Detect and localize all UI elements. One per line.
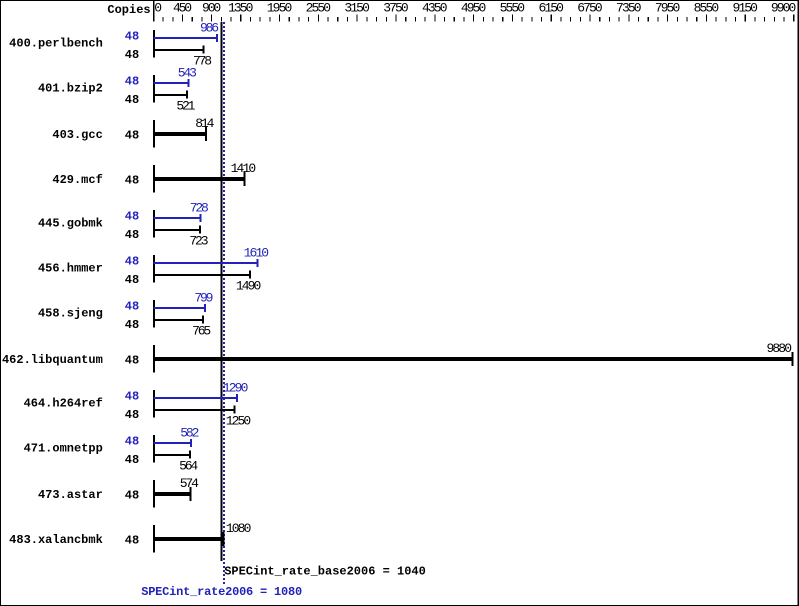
svg-text:723: 723: [189, 234, 208, 249]
svg-text:48: 48: [125, 453, 139, 467]
axis serif 473.astar: [153, 480, 155, 507]
svg-text:521: 521: [176, 99, 195, 114]
svg-text:48: 48: [125, 30, 139, 44]
svg-text:574: 574: [180, 476, 199, 491]
base bar 471.omnetpp = 564: [154, 454, 190, 456]
svg-text:9880: 9880: [767, 341, 792, 356]
svg-text:6150: 6150: [538, 1, 563, 16]
base bar 464.h264ref = 1250: [154, 409, 235, 411]
svg-text:456.hmmer: 456.hmmer: [38, 261, 103, 275]
base bar 458.sjeng = 765: [154, 319, 203, 321]
peak bar 464.h264ref = 1290: [154, 397, 237, 399]
svg-text:3750: 3750: [383, 1, 408, 16]
svg-text:1080: 1080: [226, 521, 251, 536]
svg-text:48: 48: [125, 129, 139, 143]
SPECint_rate_base2006 reference line (1040, solid black): [221, 22, 223, 561]
axis serif 400.perlbench: [153, 30, 155, 57]
svg-text:48: 48: [125, 435, 139, 449]
svg-text:48: 48: [125, 300, 139, 314]
svg-text:8550: 8550: [694, 1, 719, 16]
svg-text:48: 48: [125, 75, 139, 89]
peak bar 456.hmmer = 1610: [154, 262, 258, 264]
peak bar 401.bzip2 = 543: [154, 82, 189, 84]
axis serif 429.mcf: [153, 165, 155, 192]
axis serif 462.libquantum: [153, 345, 155, 372]
svg-text:986: 986: [200, 20, 219, 35]
x-axis scale: minor ticks every 150: [163, 17, 164, 22]
svg-text:429.mcf: 429.mcf: [52, 173, 102, 187]
svg-text:4950: 4950: [461, 1, 486, 16]
svg-text:48: 48: [125, 210, 139, 224]
base bar 429.mcf = 1410: [154, 177, 245, 181]
svg-text:6750: 6750: [577, 1, 602, 16]
svg-text:543: 543: [178, 65, 197, 80]
svg-text:900: 900: [202, 1, 221, 16]
svg-text:48: 48: [125, 390, 139, 404]
peak bar 458.sjeng = 799: [154, 307, 206, 309]
svg-text:48: 48: [125, 228, 139, 242]
svg-text:464.h264ref: 464.h264ref: [24, 396, 103, 410]
svg-text:450: 450: [173, 1, 192, 16]
svg-text:48: 48: [125, 408, 139, 422]
svg-text:564: 564: [179, 459, 198, 474]
svg-text:2550: 2550: [306, 1, 331, 16]
svg-text:48: 48: [125, 93, 139, 107]
svg-text:48: 48: [125, 489, 139, 503]
svg-text:48: 48: [125, 174, 139, 188]
axis serif 471.omnetpp: [153, 435, 155, 462]
svg-text:3150: 3150: [344, 1, 369, 16]
svg-text:Copies: Copies: [107, 3, 150, 17]
svg-text:1250: 1250: [226, 414, 251, 429]
peak bar 445.gobmk = 728: [154, 217, 201, 219]
axis serif 445.gobmk: [153, 210, 155, 237]
svg-text:1350: 1350: [228, 1, 253, 16]
svg-text:5550: 5550: [500, 1, 525, 16]
svg-text:4350: 4350: [422, 1, 447, 16]
svg-text:462.libquantum: 462.libquantum: [2, 353, 103, 367]
y-axis line top segment: [153, 0, 155, 22]
base bar 445.gobmk = 723: [154, 229, 201, 231]
peak bar 400.perlbench = 986: [154, 37, 218, 39]
svg-text:403.gcc: 403.gcc: [52, 128, 102, 142]
svg-text:799: 799: [194, 290, 213, 305]
svg-text:SPECint_rate2006 = 1080: SPECint_rate2006 = 1080: [141, 585, 302, 599]
svg-text:445.gobmk: 445.gobmk: [38, 216, 103, 230]
base bar 403.gcc = 814: [154, 132, 207, 136]
svg-text:765: 765: [192, 324, 211, 339]
svg-text:9150: 9150: [732, 1, 757, 16]
peak bar 471.omnetpp = 582: [154, 442, 192, 444]
base bar 400.perlbench = 778: [154, 49, 204, 51]
svg-text:483.xalancbmk: 483.xalancbmk: [9, 533, 103, 547]
svg-text:48: 48: [125, 354, 139, 368]
chart frame border: [0, 0, 799, 1]
axis serif 458.sjeng: [153, 300, 155, 327]
svg-text:1950: 1950: [267, 1, 292, 16]
svg-text:728: 728: [190, 200, 209, 215]
base bar 483.xalancbmk = 1080: [154, 537, 224, 541]
axis serif 456.hmmer: [153, 255, 155, 282]
axis serif 403.gcc: [153, 120, 155, 147]
svg-text:48: 48: [125, 318, 139, 332]
svg-text:1410: 1410: [231, 161, 256, 176]
base bar 473.astar = 574: [154, 492, 191, 496]
base bar 462.libquantum = 9880: [154, 357, 793, 361]
SPECint_rate2006 reference line (1080, dotted blue): [223, 22, 225, 584]
svg-text:7350: 7350: [616, 1, 641, 16]
svg-text:473.astar: 473.astar: [38, 488, 103, 502]
svg-text:1490: 1490: [236, 279, 261, 294]
base bar 401.bzip2 = 521: [154, 94, 188, 96]
svg-text:814: 814: [195, 116, 214, 131]
svg-text:SPECint_rate_base2006 = 1040: SPECint_rate_base2006 = 1040: [224, 565, 426, 579]
axis serif 464.h264ref: [153, 390, 155, 417]
svg-text:7950: 7950: [655, 1, 680, 16]
svg-text:1290: 1290: [223, 380, 248, 395]
svg-text:401.bzip2: 401.bzip2: [38, 81, 103, 95]
svg-text:400.perlbench: 400.perlbench: [9, 36, 103, 50]
svg-text:9900: 9900: [771, 1, 796, 16]
svg-text:471.omnetpp: 471.omnetpp: [24, 441, 103, 455]
svg-text:48: 48: [125, 48, 139, 62]
svg-text:458.sjeng: 458.sjeng: [38, 306, 103, 320]
axis serif 483.xalancbmk: [153, 525, 155, 552]
svg-text:582: 582: [180, 425, 199, 440]
axis serif 401.bzip2: [153, 75, 155, 102]
svg-text:48: 48: [125, 255, 139, 269]
svg-text:0: 0: [154, 1, 162, 16]
svg-text:48: 48: [125, 534, 139, 548]
svg-text:48: 48: [125, 273, 139, 287]
base bar 456.hmmer = 1490: [154, 274, 250, 276]
svg-text:1610: 1610: [244, 245, 269, 260]
